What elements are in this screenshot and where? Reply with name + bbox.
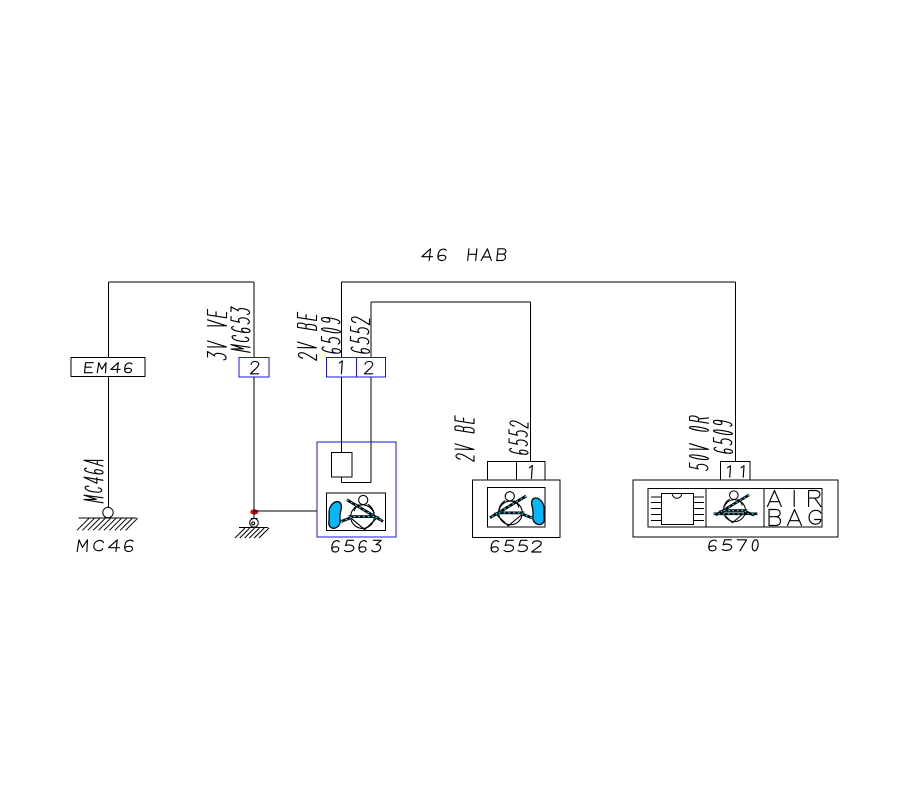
pin number 1: [529, 466, 533, 479]
connector MC653 pin 2: [239, 358, 269, 378]
wire label 2V BE: [298, 312, 317, 360]
wire EM46 riser: [108, 282, 110, 358]
label 6552: [491, 540, 542, 552]
label 6570: [708, 540, 758, 551]
pin number 2: [250, 361, 259, 373]
wire top bus EM46 to MC653: [109, 281, 255, 283]
wire label MC46A: [84, 457, 103, 502]
ground label MC46: [77, 540, 133, 552]
ground MC46: [77, 507, 138, 530]
buckle unit 6552 outline: [473, 480, 561, 538]
seat belt icon 6552: [490, 492, 544, 526]
label EM46: [85, 363, 133, 373]
IC chip icon U1: [651, 494, 704, 525]
text BAG: [769, 510, 821, 526]
pretensioner unit 6563 outline: [317, 442, 396, 537]
wire bus 6563 pin2 to 6552: [371, 301, 531, 303]
inner frame 6570: [648, 489, 822, 528]
wire 6552 drop: [530, 302, 532, 462]
wire 6570 drop: [735, 282, 737, 462]
wire MC653 pin2 to ground splice: [253, 377, 255, 519]
pin number 1: [727, 466, 731, 478]
pin number 1: [740, 466, 744, 478]
wire bus 6563 pin1 to 6570: [342, 281, 736, 283]
wire 6563 pin1 to squib: [341, 377, 343, 453]
wire 6563 pin2 internal drop: [370, 377, 372, 483]
squib element inside 6563: [332, 453, 353, 478]
wire splice to 6563 body: [254, 510, 317, 512]
wire 6563 pin1 riser: [341, 282, 343, 358]
pin number 2: [364, 361, 373, 373]
divider 1: [705, 489, 707, 528]
wire label 6509: [714, 420, 733, 455]
connector 6563 pin 2: [357, 358, 386, 378]
wire MC653 drop: [253, 282, 255, 358]
icon frame 6552: [488, 488, 546, 528]
wire label 6552: [509, 420, 528, 455]
ground symbol at splice: [235, 519, 269, 539]
connector 6563 pin 1: [327, 358, 357, 378]
wire label 3V VE: [208, 309, 227, 360]
seat belt icon 6570: [715, 491, 754, 523]
wire label 6552: [351, 316, 370, 354]
wire squib bottom stub: [341, 477, 343, 483]
label 6563: [331, 540, 381, 552]
wire label 2V BE: [455, 416, 474, 462]
net title 46: [421, 249, 446, 261]
wire label 50V OR: [690, 415, 709, 470]
connector EM46: [71, 358, 145, 377]
connector 6552: [488, 462, 546, 481]
seat belt icon 6563: [329, 495, 383, 529]
icon frame 6563: [327, 493, 386, 531]
wire 6563 pin2 riser: [370, 302, 372, 358]
wire label MC653: [231, 307, 250, 353]
airbag ECU 6570 outline: [633, 480, 838, 537]
wire squib return horizontal: [342, 482, 372, 484]
splice junction red dot: [250, 509, 258, 514]
divider 2: [763, 489, 765, 528]
pin number 1: [339, 361, 343, 374]
net title HAB: [468, 249, 506, 261]
wire label 6509: [322, 317, 341, 354]
text AIR: [767, 491, 820, 507]
connector 6570 pin 11: [721, 462, 751, 481]
wire EM46 to ground MC46: [108, 377, 110, 508]
